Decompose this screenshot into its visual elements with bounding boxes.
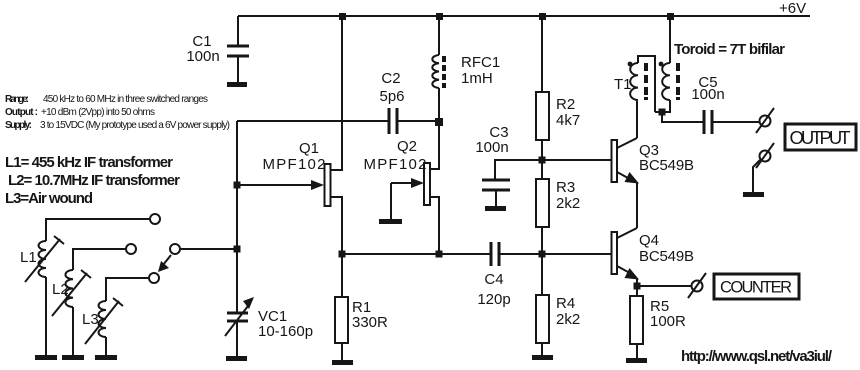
ground C1: [227, 82, 247, 87]
svg-text:L3=Air wound: L3=Air wound: [5, 190, 93, 207]
wire Q3 emitter to Q4 collector: [636, 182, 638, 228]
ground R4: [532, 355, 553, 360]
svg-text:2k2: 2k2: [556, 195, 580, 212]
ground R1: [332, 360, 353, 365]
svg-text:R4: R4: [556, 295, 575, 312]
svg-text:C2: C2: [381, 70, 400, 87]
capacitor C5 100n: [691, 74, 724, 134]
svg-text:L1: L1: [20, 249, 37, 266]
svg-text:OUTPUT: OUTPUT: [790, 127, 851, 148]
resistor R3 2k2: [536, 160, 580, 254]
capacitor C3 100n: [475, 124, 510, 206]
node D junction rail/T1: [667, 13, 674, 20]
switch S1 range selector: [126, 214, 237, 283]
svg-text:+10 dBm (2Vpp) into 50 ohms: +10 dBm (2Vpp) into 50 ohms: [41, 107, 155, 118]
svg-text:T1: T1: [614, 76, 632, 93]
node I junction R3/R4/C4/Q4 base: [539, 251, 546, 258]
svg-text:Supply:: Supply:: [5, 120, 32, 131]
svg-text:4k7: 4k7: [556, 112, 580, 129]
svg-text:2k2: 2k2: [556, 311, 580, 328]
ground VC1: [226, 356, 247, 361]
resistor R5 100R: [630, 296, 686, 358]
wire Q1 source down: [330, 197, 342, 254]
inductor RFC1 1mH: [432, 16, 500, 88]
wire Q4 base line: [542, 253, 611, 255]
svg-text:C4: C4: [484, 271, 503, 288]
wire +6V top rail: [238, 15, 810, 17]
node C junction rail/R2: [539, 13, 546, 20]
wire RFC1 bottom to Q2 drain: [430, 88, 439, 169]
svg-text:Q1: Q1: [299, 140, 319, 157]
svg-text:Toroid = 7T bifilar: Toroid = 7T bifilar: [674, 41, 785, 58]
wire rail to R2: [541, 16, 543, 92]
svg-text:1mH: 1mH: [461, 70, 493, 87]
svg-text:Output :: Output :: [5, 107, 38, 118]
ground R5: [626, 358, 647, 363]
resistor R2 4k7: [536, 92, 580, 160]
wire tank gate line to C2: [237, 120, 388, 122]
svg-text:R3: R3: [556, 179, 575, 196]
capacitor VC1 10-160p variable: [225, 297, 313, 356]
capacitor C2 5p6: [379, 70, 404, 134]
svg-text:100n: 100n: [475, 139, 508, 156]
wire Q2 source down: [430, 197, 439, 254]
svg-text:100R: 100R: [650, 313, 686, 330]
svg-text:+6V: +6V: [779, 0, 806, 17]
svg-text:450 kHz to 60 MHz in three swi: 450 kHz to 60 MHz in three switched rang…: [43, 94, 208, 105]
node J junction T1 tap: [659, 109, 666, 116]
svg-text:COUNTER: COUNTER: [720, 279, 792, 297]
svg-text:BC549B: BC549B: [639, 248, 694, 265]
capacitor C1: [186, 16, 249, 82]
transistor Q4 BC549B: [612, 228, 695, 280]
svg-text:120p: 120p: [477, 291, 510, 308]
label COUNTER box: [714, 274, 799, 299]
connector output ground jack: [753, 143, 774, 192]
wire C5 to output connector: [713, 121, 759, 123]
svg-text:330R: 330R: [352, 314, 388, 331]
svg-text:L2: L2: [52, 281, 69, 298]
wire C2 to RFC1/Q2 drain node: [398, 120, 439, 122]
svg-text:MPF102: MPF102: [364, 156, 427, 173]
resistor R4 2k2: [536, 254, 580, 355]
svg-text:100n: 100n: [691, 86, 724, 103]
svg-text:5p6: 5p6: [379, 88, 404, 105]
transistor Q1 MPF102: [237, 140, 331, 206]
svg-text:Q4: Q4: [639, 232, 659, 249]
ground output jack: [743, 192, 764, 197]
wire Q4 emitter down: [636, 279, 638, 296]
svg-text:10-160p: 10-160p: [258, 323, 313, 340]
svg-text:Range:: Range:: [5, 94, 29, 105]
wire rail to T1 right winding: [669, 16, 671, 63]
svg-text:3 to 15VDC (My prototype used: 3 to 15VDC (My prototype used a 6V power…: [40, 120, 230, 131]
wire to counter connector: [637, 285, 691, 287]
note range/output/supply block: [5, 94, 230, 131]
node F junction Q1 source/R1: [339, 251, 346, 258]
inductor L3: [82, 278, 148, 355]
capacitor C4 120p: [477, 242, 510, 308]
svg-text:MPF102: MPF102: [263, 156, 326, 173]
inductor L1: [20, 219, 149, 355]
wire C4 to R3/R4 node: [500, 253, 542, 255]
transistor Q2 MPF102: [364, 138, 431, 219]
ground L2: [62, 355, 84, 360]
svg-text:RFC1: RFC1: [461, 54, 500, 71]
wire Q3 collector to T1: [636, 101, 638, 138]
label OUTPUT box: [785, 124, 856, 150]
transistor Q3 BC549B: [612, 138, 695, 184]
transformer T1: [614, 56, 678, 112]
inductor L2: [52, 249, 125, 355]
node K junction Q4 emitter/R5/counter: [634, 283, 641, 290]
node L junction tank/Q1 gate: [234, 182, 241, 189]
svg-text:BC549B: BC549B: [639, 157, 694, 174]
resistor R1 330R: [335, 254, 388, 360]
node E junction C2/RFC1/Q2: [435, 118, 443, 126]
svg-text:http://www.qsl.net/va3iul/: http://www.qsl.net/va3iul/: [681, 348, 833, 365]
wire T1 tap to C5: [662, 112, 703, 122]
svg-text:L1= 455 kHz IF transformer: L1= 455 kHz IF transformer: [5, 154, 173, 171]
ground L3: [95, 355, 117, 360]
wire Q3 base line: [542, 159, 611, 161]
node M junction tank/switch: [234, 246, 241, 253]
ground C3: [485, 206, 506, 211]
connector counter jack: [688, 273, 706, 298]
wire tank vertical: [236, 121, 238, 313]
node G junction Q2 source: [436, 251, 443, 258]
svg-text:R2: R2: [556, 96, 575, 113]
svg-text:Q2: Q2: [397, 138, 417, 155]
svg-text:L2= 10.7MHz IF transformer: L2= 10.7MHz IF transformer: [8, 172, 180, 189]
wire source line Q1-Q2-C4: [342, 253, 490, 255]
svg-text:100n: 100n: [186, 48, 219, 65]
svg-text:L3: L3: [82, 311, 99, 328]
wire Q1 drain to rail: [330, 16, 342, 170]
ground L1: [35, 355, 57, 360]
note L1 L2 L3 description: [5, 154, 180, 207]
node A junction rail/Q1-drain: [339, 13, 346, 20]
node H junction R2/R3/C3/Q3 base: [539, 157, 546, 164]
node B junction rail/RFC1: [436, 13, 443, 20]
connector output jack: [756, 108, 774, 133]
ground Q2 gate: [379, 219, 402, 224]
wire C3 to node H: [495, 160, 542, 180]
